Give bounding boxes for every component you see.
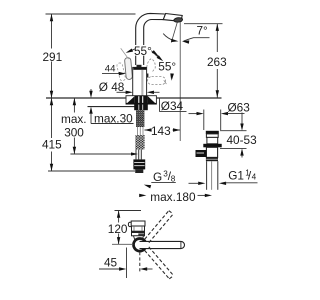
415 reference line: [48, 170, 135, 172]
plumb line from outlet: [179, 22, 181, 141]
waste body: [206, 147, 217, 157]
hose section gap lines: [138, 127, 144, 135]
plan handle knob bar: [131, 221, 145, 226]
spout outlet aerator: [174, 17, 183, 22]
svg-text:max.180: max.180: [150, 190, 196, 204]
waste neck: [207, 137, 218, 143]
plan valve circle ring: [134, 239, 147, 252]
dimension max.30: [90, 89, 92, 94]
55 degree label (handle arc): [133, 45, 154, 56]
escutcheon base: [126, 96, 156, 105]
svg-text:Ø63: Ø63: [228, 100, 251, 114]
svg-text:45: 45: [104, 255, 118, 269]
thin leader above dashed handle: [121, 48, 129, 59]
dimension 40-53 refs: [220, 130, 247, 132]
svg-text:40-53: 40-53: [227, 133, 258, 147]
extension line top of spout: [46, 13, 136, 15]
plan lever dashed up position: [145, 211, 174, 243]
plan center line left: [112, 243, 133, 245]
waste plug cap: [206, 131, 219, 134]
svg-text:415: 415: [42, 138, 62, 152]
handle dashed alt position left: [116, 62, 126, 81]
hose end nut: [133, 159, 145, 169]
overflow port: [196, 150, 207, 157]
pop-up waste: extension lines: [203, 110, 205, 131]
dimension 415: [51, 98, 53, 138]
handle pivot hub right: [144, 74, 148, 78]
plan spout body box: [132, 226, 145, 236]
hose nut taper: [135, 169, 143, 173]
handle dashed horizontal position: [148, 77, 166, 85]
threaded shank under counter: [136, 110, 144, 127]
plan handle knob tab: [128, 222, 132, 226]
flexible hose braided: [135, 135, 144, 150]
cartridge nub: [137, 65, 142, 68]
plan lever dashed down position: [145, 247, 174, 279]
55 degree label second (spout arc): [158, 61, 179, 72]
svg-text:max.30: max.30: [94, 111, 133, 125]
svg-text:max.: max.: [61, 112, 87, 126]
svg-text:7°: 7°: [197, 23, 209, 37]
handle dashed raised loop: [147, 59, 156, 72]
dimension 40-53: [241, 113, 243, 125]
faucet body: [133, 67, 147, 96]
svg-text:G1: G1: [228, 169, 244, 183]
svg-text:4: 4: [252, 173, 257, 182]
max.300 hose pointer: [131, 152, 138, 155]
svg-text:55°: 55°: [134, 44, 152, 58]
plan extension line top: [115, 210, 142, 212]
svg-text:300: 300: [64, 125, 84, 139]
waste flange: [203, 144, 221, 148]
svg-text:291: 291: [43, 50, 63, 64]
deck line left: [46, 97, 126, 99]
dimension 120: [118, 211, 120, 223]
diameter 63 arrows: [189, 113, 198, 115]
mounting nut: [134, 104, 148, 110]
45 extension line: [126, 248, 128, 279]
dimension max.300: [73, 98, 75, 113]
svg-text:44: 44: [105, 64, 116, 75]
locknut: [206, 157, 218, 161]
plan lever solid: [140, 241, 185, 248]
G1 1/4 tail diameter arrows: [189, 182, 199, 184]
dimension 291: [51, 14, 53, 98]
spout joint line: [163, 14, 165, 20]
counter bottom line: [88, 106, 136, 108]
tilted outlet axis line: [171, 22, 177, 42]
svg-text:120: 120: [108, 222, 128, 236]
tailpipe: [206, 161, 208, 190]
dimension 143: [144, 129, 150, 131]
dimension 263: [184, 23, 223, 25]
deck line right: [157, 97, 222, 99]
handle lever solid: [124, 57, 132, 79]
plan dashed center line below: [139, 252, 141, 272]
svg-text:55°: 55°: [158, 59, 176, 73]
max.300 reference line: [70, 153, 132, 155]
svg-text:Ø34: Ø34: [161, 99, 184, 113]
svg-text:G: G: [153, 170, 162, 184]
svg-text:143: 143: [151, 124, 171, 138]
spout head piece (7 deg tilt): [163, 14, 182, 22]
hose tubes below braid: [136, 150, 141, 160]
plan neck: [134, 236, 144, 239]
spout tube vertical + elbow: [136, 13, 165, 65]
diameter 34 label with step leader: [159, 98, 161, 112]
svg-text:263: 263: [207, 55, 227, 69]
